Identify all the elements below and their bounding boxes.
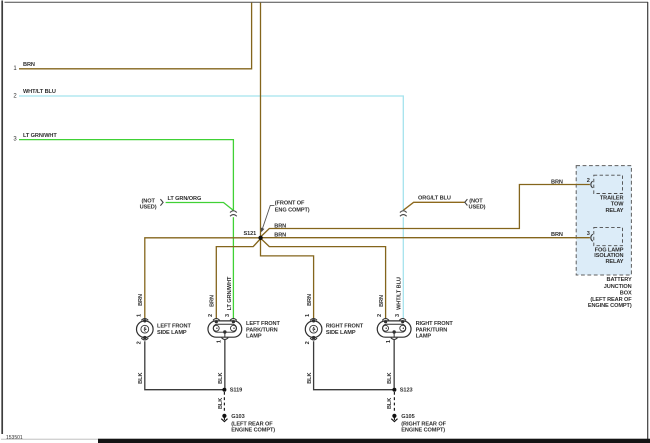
svg-text:BRN: BRN	[138, 294, 144, 306]
svg-text:2: 2	[305, 341, 311, 344]
svg-text:ENGINE COMPT): ENGINE COMPT)	[401, 427, 445, 433]
svg-text:2: 2	[587, 178, 590, 184]
svg-text:2: 2	[208, 314, 214, 317]
svg-text:3: 3	[225, 314, 231, 317]
svg-text:PARK/TURN: PARK/TURN	[416, 327, 448, 333]
svg-text:RIGHT FRONT: RIGHT FRONT	[416, 321, 454, 327]
svg-text:G105: G105	[401, 414, 414, 420]
svg-text:LT GRN/WHT: LT GRN/WHT	[227, 276, 233, 310]
svg-text:1: 1	[386, 340, 392, 343]
svg-text:TRAILER: TRAILER	[600, 195, 624, 201]
svg-text:(NOT: (NOT	[469, 199, 483, 205]
svg-text:BRN: BRN	[307, 294, 313, 306]
svg-text:S123: S123	[400, 387, 413, 393]
svg-text:2: 2	[136, 341, 142, 344]
svg-text:S121: S121	[244, 231, 257, 237]
svg-text:RELAY: RELAY	[605, 259, 623, 265]
svg-text:BRN: BRN	[23, 62, 35, 68]
svg-text:RIGHT FRONT: RIGHT FRONT	[326, 323, 364, 329]
svg-text:BLK: BLK	[387, 398, 393, 409]
svg-text:1: 1	[305, 314, 311, 317]
svg-text:BLK: BLK	[307, 373, 313, 384]
svg-text:LAMP: LAMP	[416, 334, 432, 340]
svg-text:BRN: BRN	[551, 232, 563, 238]
svg-text:ENGINE COMPT): ENGINE COMPT)	[231, 427, 275, 433]
svg-text:WHT/LT BLU: WHT/LT BLU	[397, 277, 403, 310]
svg-text:LT GRN/ORG: LT GRN/ORG	[168, 196, 202, 202]
svg-text:SIDE LAMP: SIDE LAMP	[326, 330, 356, 336]
svg-text:TOW: TOW	[611, 202, 624, 208]
svg-text:BATTERY: BATTERY	[607, 277, 632, 283]
svg-text:(FRONT OF: (FRONT OF	[275, 201, 305, 207]
svg-text:BLK: BLK	[138, 373, 144, 384]
svg-text:BLK: BLK	[387, 373, 393, 384]
svg-text:RELAY: RELAY	[605, 208, 623, 214]
svg-text:BRN: BRN	[274, 224, 286, 230]
svg-text:BRN: BRN	[274, 232, 286, 238]
svg-text:BLK: BLK	[218, 373, 224, 384]
svg-text:BRN: BRN	[551, 179, 563, 185]
svg-text:JUNCTION: JUNCTION	[604, 284, 632, 290]
svg-text:BOX: BOX	[620, 290, 632, 296]
svg-text:PARK/TURN: PARK/TURN	[246, 327, 278, 333]
svg-text:1: 1	[217, 340, 223, 343]
svg-text:USED): USED)	[140, 205, 157, 211]
svg-text:G103: G103	[231, 414, 244, 420]
svg-text:LAMP: LAMP	[246, 334, 262, 340]
svg-text:153501: 153501	[6, 435, 23, 441]
svg-text:3: 3	[395, 314, 401, 317]
svg-text:SIDE LAMP: SIDE LAMP	[157, 330, 187, 336]
svg-text:ENGINE COMPT): ENGINE COMPT)	[588, 303, 632, 309]
svg-text:BRN: BRN	[210, 295, 216, 307]
svg-text:LEFT FRONT: LEFT FRONT	[246, 321, 280, 327]
svg-text:BLK: BLK	[218, 398, 224, 409]
svg-text:WHT/LT BLU: WHT/LT BLU	[23, 89, 56, 95]
svg-text:LT GRN/WHT: LT GRN/WHT	[23, 133, 57, 139]
svg-text:USED): USED)	[469, 205, 486, 211]
svg-text:BRN: BRN	[379, 295, 385, 307]
svg-text:(NOT: (NOT	[142, 198, 156, 204]
svg-text:1: 1	[136, 314, 142, 317]
svg-text:ORG/LT BLU: ORG/LT BLU	[418, 195, 451, 201]
svg-text:LEFT FRONT: LEFT FRONT	[157, 323, 191, 329]
svg-text:ENG COMPT): ENG COMPT)	[275, 207, 310, 213]
svg-text:2: 2	[377, 314, 383, 317]
svg-text:3: 3	[587, 231, 590, 237]
svg-text:S119: S119	[230, 387, 242, 393]
